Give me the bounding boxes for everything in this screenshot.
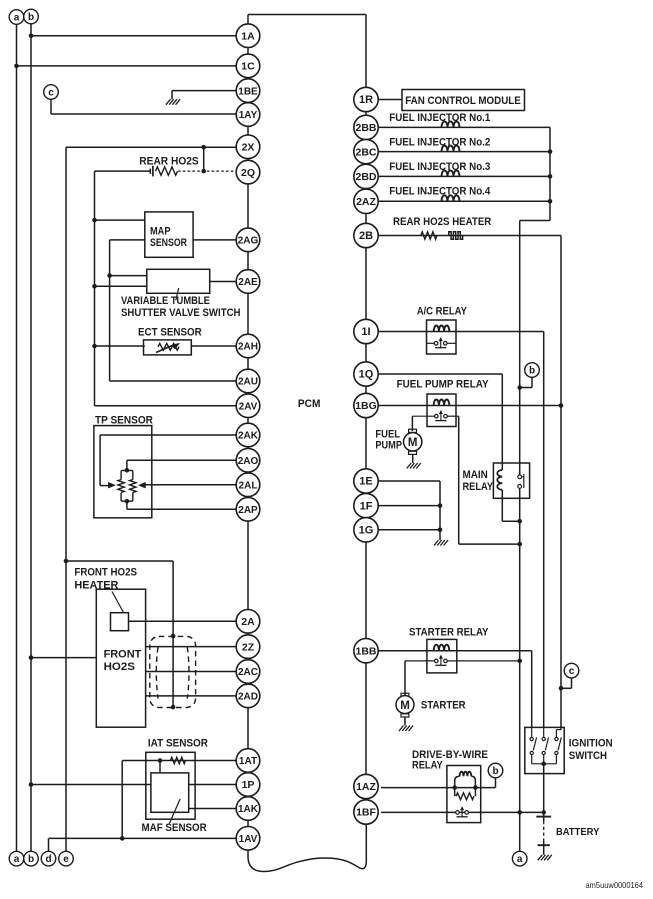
svg-text:FRONT HO2S: FRONT HO2S [74, 567, 137, 579]
svg-text:2AZ: 2AZ [356, 196, 376, 208]
svg-text:1AK: 1AK [238, 804, 259, 815]
svg-text:2Z: 2Z [242, 641, 255, 653]
svg-text:2A: 2A [241, 616, 255, 628]
svg-text:2BD: 2BD [355, 171, 376, 183]
svg-text:2AH: 2AH [238, 342, 258, 353]
svg-text:ECT SENSOR: ECT SENSOR [138, 326, 202, 338]
svg-text:TP SENSOR: TP SENSOR [95, 414, 153, 426]
svg-text:1A: 1A [241, 30, 255, 42]
svg-text:2BB: 2BB [355, 122, 376, 134]
svg-text:2B: 2B [359, 230, 373, 242]
svg-text:IGNITION: IGNITION [569, 737, 613, 749]
svg-text:a: a [14, 13, 20, 24]
svg-text:IAT SENSOR: IAT SENSOR [148, 738, 208, 750]
svg-text:VARIABLE TUMBLE: VARIABLE TUMBLE [121, 295, 210, 307]
svg-text:M: M [408, 437, 418, 449]
svg-text:MAIN: MAIN [463, 469, 488, 481]
svg-text:2AU: 2AU [238, 377, 258, 388]
svg-text:FUEL INJECTOR No.1: FUEL INJECTOR No.1 [389, 112, 490, 124]
svg-text:b: b [28, 854, 34, 865]
svg-text:b: b [492, 766, 498, 777]
svg-text:SHUTTER VALVE SWITCH: SHUTTER VALVE SWITCH [121, 307, 241, 319]
svg-text:1AV: 1AV [239, 834, 258, 845]
svg-text:FUEL INJECTOR No.3: FUEL INJECTOR No.3 [389, 161, 490, 173]
svg-text:b: b [529, 366, 535, 377]
svg-text:A/C RELAY: A/C RELAY [417, 306, 467, 318]
svg-text:1BG: 1BG [355, 400, 377, 412]
svg-text:FAN CONTROL MODULE: FAN CONTROL MODULE [405, 95, 521, 107]
svg-text:2X: 2X [242, 142, 255, 154]
svg-text:FUEL: FUEL [375, 428, 400, 440]
svg-text:2AC: 2AC [238, 667, 258, 678]
svg-text:PCM: PCM [298, 398, 321, 410]
svg-text:MAF SENSOR: MAF SENSOR [142, 822, 208, 834]
svg-text:2AD: 2AD [238, 692, 258, 703]
svg-text:1BF: 1BF [356, 807, 376, 819]
svg-text:c: c [569, 666, 575, 677]
svg-text:FRONT: FRONT [104, 648, 142, 660]
svg-text:FUEL INJECTOR No.4: FUEL INJECTOR No.4 [389, 186, 490, 198]
svg-text:2AL: 2AL [239, 481, 258, 492]
svg-text:FUEL INJECTOR No.2: FUEL INJECTOR No.2 [389, 136, 490, 148]
svg-text:c: c [48, 88, 54, 99]
svg-text:1AT: 1AT [239, 756, 257, 767]
svg-text:a: a [14, 854, 20, 865]
svg-text:1E: 1E [359, 476, 372, 488]
svg-text:2AO: 2AO [238, 456, 259, 467]
svg-text:2BC: 2BC [355, 146, 376, 158]
svg-text:RELAY: RELAY [463, 481, 494, 493]
svg-text:PUMP: PUMP [375, 440, 402, 452]
svg-text:BATTERY: BATTERY [556, 827, 600, 838]
svg-text:2Q: 2Q [241, 167, 255, 179]
svg-text:FUEL PUMP RELAY: FUEL PUMP RELAY [397, 379, 489, 391]
svg-text:MAP: MAP [150, 226, 171, 238]
svg-text:SENSOR: SENSOR [150, 237, 187, 249]
svg-text:REAR HO2S HEATER: REAR HO2S HEATER [393, 216, 492, 228]
svg-text:M: M [400, 700, 410, 712]
svg-text:1BB: 1BB [355, 645, 376, 657]
svg-text:1P: 1P [242, 779, 255, 791]
svg-text:1AY: 1AY [239, 110, 258, 121]
svg-text:1AZ: 1AZ [356, 781, 376, 793]
svg-text:2AV: 2AV [239, 401, 258, 412]
svg-text:1I: 1I [361, 326, 370, 338]
svg-text:2AK: 2AK [238, 431, 259, 442]
svg-text:SWITCH: SWITCH [569, 750, 607, 762]
svg-text:2AG: 2AG [238, 236, 259, 247]
svg-text:STARTER: STARTER [421, 699, 466, 711]
svg-text:1F: 1F [360, 500, 373, 512]
svg-text:2AE: 2AE [238, 277, 258, 288]
svg-text:1Q: 1Q [359, 369, 374, 381]
svg-text:b: b [28, 12, 34, 23]
svg-text:2AP: 2AP [238, 505, 258, 516]
svg-text:HO2S: HO2S [104, 661, 135, 673]
svg-text:1G: 1G [359, 525, 374, 537]
svg-text:REAR HO2S: REAR HO2S [139, 155, 198, 167]
svg-text:am5uuw0000164: am5uuw0000164 [586, 880, 644, 890]
svg-text:1R: 1R [359, 94, 373, 106]
svg-text:1C: 1C [241, 61, 255, 73]
svg-text:e: e [63, 854, 69, 865]
svg-text:STARTER RELAY: STARTER RELAY [409, 626, 489, 638]
svg-text:a: a [517, 854, 523, 865]
svg-text:1BE: 1BE [238, 86, 258, 97]
svg-text:d: d [45, 854, 51, 865]
svg-text:RELAY: RELAY [412, 760, 443, 772]
